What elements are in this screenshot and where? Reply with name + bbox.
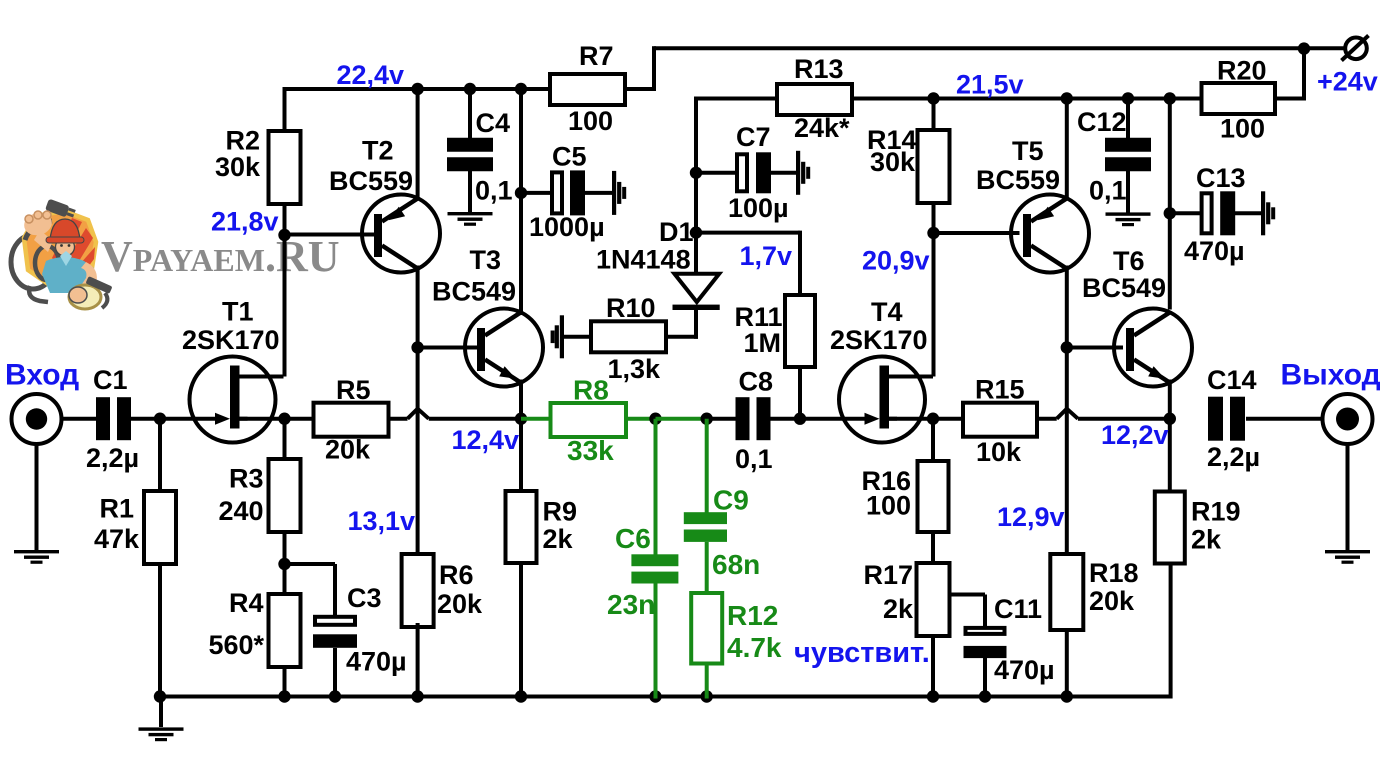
wire R4 bottom lead	[283, 667, 287, 699]
label +24v	[1317, 66, 1378, 96]
label R10	[606, 293, 656, 323]
svg-text:1,3k: 1,3k	[608, 354, 662, 384]
wire C7 lead left	[696, 171, 736, 175]
label C4 value 0,1	[475, 176, 513, 206]
capacitor C8	[736, 397, 771, 440]
label R4	[229, 588, 264, 618]
wire T1 drain vertical	[283, 233, 287, 377]
node R3/R4/C3 junction	[278, 558, 290, 570]
node T3 base junction	[411, 341, 423, 353]
wire T3 emitter vertical lower	[519, 380, 523, 421]
label R2 value 30k	[215, 152, 261, 182]
node ground rail / R1	[154, 690, 166, 702]
node C9 junction	[701, 413, 713, 425]
capacitor C13 (electrolytic 470µ)	[1202, 191, 1236, 235]
svg-text:BC549: BC549	[432, 277, 516, 307]
svg-text:C1: C1	[93, 365, 128, 395]
wire R19 bottom to ground rail corner	[1169, 564, 1173, 699]
label T5 type BC559	[976, 165, 1060, 195]
label C9 value 68n (green)	[712, 549, 760, 580]
svg-text:C7: C7	[736, 122, 771, 152]
logo text Vpayaem.RU	[101, 232, 340, 281]
svg-text:C6: C6	[615, 523, 651, 554]
svg-text:C14: C14	[1207, 365, 1257, 395]
label R3 value 240	[218, 496, 263, 526]
wire input jack ground stub	[35, 444, 39, 550]
transistor T3 (BC549 NPN)	[465, 309, 543, 387]
node T6 emitter / R19 junction	[1164, 413, 1176, 425]
label R17	[863, 560, 913, 590]
node D1 anode node	[690, 226, 702, 238]
svg-text:C3: C3	[347, 583, 382, 613]
label R20	[1217, 56, 1267, 86]
svg-text:1,7v: 1,7v	[740, 241, 793, 271]
node ground rail / R17	[927, 690, 939, 702]
node 21,5v rail / C12 junction	[1122, 92, 1134, 104]
svg-text:R19: R19	[1191, 497, 1241, 527]
ground R10 (sideways left)	[551, 315, 564, 358]
wire C4 bottom lead	[468, 168, 472, 213]
transistor T6 (BC549 NPN)	[1114, 309, 1192, 387]
svg-text:1000µ: 1000µ	[529, 212, 605, 242]
ground output jack	[1325, 550, 1370, 564]
capacitor C6 (green)	[631, 554, 678, 583]
svg-text:BC559: BC559	[976, 165, 1060, 195]
svg-text:T3: T3	[470, 245, 502, 275]
wire T2 collector vertical to T3 base node and R6	[416, 266, 420, 555]
label C14 value 2,2µ	[1207, 442, 1260, 472]
node ground rail / R4	[278, 690, 290, 702]
label R18 value 20k	[1089, 586, 1135, 616]
svg-text:12,9v: 12,9v	[997, 502, 1065, 532]
wire T4 drain vertical	[932, 231, 936, 377]
wire C4 top lead	[468, 87, 472, 141]
wire green R12 bottom lead	[705, 664, 709, 699]
node ground rail / R12	[701, 690, 713, 702]
svg-text:T2: T2	[362, 136, 394, 166]
resistor R15	[963, 403, 1037, 437]
resistor R8 (green)	[551, 403, 627, 437]
label R10 value 1,3k	[608, 354, 662, 384]
svg-text:R8: R8	[573, 375, 609, 406]
node 21,8v (R2/T1 drain/T2 base)	[278, 229, 290, 241]
wire T5 collector vertical to T6 base node and R18	[1065, 266, 1069, 555]
ground C7 (sideways)	[796, 151, 810, 195]
label R19	[1191, 497, 1241, 527]
label чувствит. (blue)	[794, 637, 930, 669]
label C4	[476, 108, 511, 138]
svg-text:30k: 30k	[215, 152, 261, 182]
label R16 value 100	[866, 491, 911, 521]
wire C3 tap	[283, 564, 336, 616]
wire to T4 gate	[800, 417, 865, 421]
wire R17 bottom lead	[931, 636, 935, 699]
wire C13 lead left	[1170, 211, 1201, 215]
wire main ground stub	[159, 697, 163, 728]
wire R1 bottom lead	[158, 564, 162, 699]
wire R18 bottom lead	[1065, 630, 1069, 699]
wire ground rail	[160, 695, 1171, 699]
label C12 value 0,1	[1089, 176, 1127, 206]
svg-text:Вход: Вход	[5, 358, 79, 391]
label R7	[579, 41, 614, 71]
label C12	[1077, 107, 1127, 137]
svg-text:+24v: +24v	[1317, 66, 1378, 96]
svg-text:R2: R2	[225, 126, 260, 156]
node C1/R1 junction	[154, 413, 166, 425]
label R13 value 24k*	[794, 113, 850, 143]
transistor T4 (2SK170 JFET)	[839, 357, 933, 443]
label C3	[347, 583, 382, 613]
label D1 type 1N4148	[596, 245, 691, 275]
ground main (below rail)	[139, 727, 184, 741]
label 22,4v voltage	[337, 60, 405, 90]
wire D1 node to R11 top	[694, 231, 800, 295]
connector output jack	[1323, 394, 1373, 444]
resistor R6	[402, 554, 434, 627]
resistor R20	[1202, 83, 1276, 114]
svg-text:R4: R4	[229, 588, 264, 618]
wire R5 right with crossover hop	[389, 409, 523, 419]
svg-text:2,2µ: 2,2µ	[1207, 442, 1260, 472]
wire R3 top lead	[283, 419, 287, 459]
capacitor C11 (electrolytic)	[964, 628, 1007, 658]
wire T6 emitter vertical lower	[1168, 380, 1172, 421]
wire C8 to R11 node	[770, 417, 800, 421]
label C6 value 23n (green)	[607, 589, 655, 620]
svg-text:C4: C4	[476, 108, 511, 138]
wire R10 left lead	[563, 335, 591, 339]
svg-text:10k: 10k	[976, 437, 1022, 467]
resistor R13	[777, 84, 852, 115]
label R4 value 560*	[208, 630, 264, 660]
wire 22,4v rail	[283, 87, 551, 91]
wire R13 left lead	[694, 97, 777, 101]
node ground rail / R18	[1061, 690, 1073, 702]
svg-text:24k*: 24k*	[794, 113, 850, 143]
label C11 value 470µ	[994, 655, 1055, 685]
svg-text:2SK170: 2SK170	[182, 325, 280, 355]
label C9 (green)	[713, 485, 749, 516]
svg-text:470µ: 470µ	[346, 647, 407, 677]
svg-text:100: 100	[866, 491, 911, 521]
label R2	[225, 126, 260, 156]
ground input jack	[14, 550, 59, 564]
svg-text:30k: 30k	[870, 147, 916, 177]
svg-text:20k: 20k	[437, 589, 483, 619]
label R11	[735, 302, 783, 332]
node ground rail / C6	[649, 690, 661, 702]
label R5 value 20k	[325, 435, 371, 465]
wire green C6 vertical upper	[654, 419, 658, 556]
label R12 (green)	[727, 600, 778, 631]
wire T5 emitter vertical	[1065, 97, 1069, 200]
logo Vpayaem.RU mascot	[11, 199, 113, 309]
node ground rail / C3	[329, 690, 341, 702]
svg-text:12,2v: 12,2v	[1101, 420, 1169, 450]
capacitor C7 (electrolytic 100µ)	[737, 152, 771, 193]
label R12 value 4.7k (green)	[727, 632, 782, 663]
node C5 junction	[515, 187, 527, 199]
svg-text:470µ: 470µ	[1184, 236, 1245, 266]
wire R20 to top rail jog	[1275, 46, 1304, 100]
ground C4	[448, 212, 493, 226]
resistor R2	[269, 131, 301, 204]
svg-text:R9: R9	[543, 497, 578, 527]
wire R1 top lead	[158, 419, 162, 491]
node T4 source / R16 / R15 junction	[927, 413, 939, 425]
node C13 junction	[1164, 207, 1176, 219]
wire R9 top lead	[519, 419, 523, 493]
label R18	[1089, 558, 1139, 588]
svg-text:2k: 2k	[543, 524, 574, 554]
wire T4 source to node	[889, 417, 933, 421]
label T6	[1113, 246, 1145, 276]
svg-text:2,2µ: 2,2µ	[86, 443, 139, 473]
resistor R1	[144, 491, 176, 564]
label 21,5v voltage	[956, 70, 1024, 100]
label 12,4v voltage	[452, 425, 520, 455]
wire R9 bottom lead	[519, 563, 523, 699]
svg-text:C11: C11	[994, 594, 1042, 624]
svg-text:T4: T4	[871, 297, 903, 327]
wire C3 bottom lead	[333, 648, 337, 699]
label 13,1v voltage	[348, 506, 416, 536]
svg-text:47k: 47k	[94, 524, 140, 554]
wire C12 bottom lead	[1126, 168, 1130, 213]
svg-text:0,1: 0,1	[735, 444, 773, 474]
svg-text:C5: C5	[552, 142, 587, 172]
wire node to R15	[933, 417, 963, 421]
resistor R9	[506, 491, 537, 563]
svg-text:100: 100	[1220, 114, 1265, 144]
wire green C9 to R12	[705, 542, 709, 594]
label 1,7v voltage	[740, 241, 793, 271]
label C7	[736, 122, 771, 152]
svg-text:T6: T6	[1113, 246, 1145, 276]
svg-text:560*: 560*	[208, 630, 264, 660]
svg-text:BC549: BC549	[1082, 273, 1166, 303]
node C7 junction	[690, 167, 702, 179]
wire 20,9v node to T5 base	[934, 231, 1020, 235]
resistor R12 (green)	[691, 593, 722, 664]
wire R2 top to rail	[283, 87, 287, 131]
svg-text:1M: 1M	[744, 328, 782, 358]
label R8 (green)	[573, 375, 609, 406]
label R5	[336, 375, 371, 405]
label R6	[439, 560, 474, 590]
label 12,2v voltage	[1101, 420, 1169, 450]
wire T2 emitter vertical	[416, 87, 420, 200]
svg-text:13,1v: 13,1v	[348, 506, 416, 536]
label R9	[543, 497, 578, 527]
capacitor C12	[1105, 138, 1151, 172]
node C8 / R11 junction	[794, 413, 806, 425]
wire C5 tap	[521, 191, 551, 195]
label T5	[1012, 136, 1044, 166]
label R3	[229, 464, 264, 494]
wire 21,8v node to T2 base	[285, 233, 375, 237]
wire T6 collector vertical	[1168, 97, 1172, 310]
wire C12 top lead	[1126, 97, 1130, 142]
resistor R7	[550, 74, 625, 105]
svg-text:1N4148: 1N4148	[596, 245, 691, 275]
svg-text:2k: 2k	[1191, 525, 1222, 555]
label R14	[867, 125, 917, 155]
svg-text:2SK170: 2SK170	[830, 325, 928, 355]
svg-text:470µ: 470µ	[994, 655, 1055, 685]
svg-text:D1: D1	[659, 217, 694, 247]
label Вход	[5, 358, 79, 391]
svg-text:0,1: 0,1	[475, 176, 513, 206]
node 22,4v rail / T2 emitter junction	[411, 83, 423, 95]
label R20 value 100	[1220, 114, 1265, 144]
svg-text:C13: C13	[1196, 163, 1246, 193]
wire R14 bottom to 20,9v node	[932, 203, 936, 235]
wire R16 top lead	[931, 419, 935, 461]
transistor T1 (2SK170 JFET)	[190, 357, 284, 443]
svg-text:C12: C12	[1077, 107, 1127, 137]
label C14	[1207, 365, 1257, 395]
label R14 value 30k	[870, 147, 916, 177]
svg-text:R3: R3	[229, 464, 264, 494]
node ground rail / C11	[979, 690, 991, 702]
wire C13 lead right to ground	[1233, 211, 1262, 215]
wire T3 collector vertical	[519, 87, 523, 315]
label C13 value 470µ	[1184, 236, 1245, 266]
label T2	[362, 136, 394, 166]
label 20,9v voltage	[862, 246, 930, 276]
node 22,4v rail / T3 collector junction	[515, 83, 527, 95]
label R8 value 33k (green)	[567, 435, 614, 466]
wire green C6 node to C9 node	[656, 417, 707, 421]
svg-text:C9: C9	[713, 485, 749, 516]
svg-text:240: 240	[218, 496, 263, 526]
svg-text:R10: R10	[606, 293, 656, 323]
label T3 type BC549	[432, 277, 516, 307]
svg-text:100µ: 100µ	[728, 193, 789, 223]
label R16	[861, 466, 911, 496]
wire T6 base lead	[1067, 346, 1123, 350]
label C8 value 0,1	[735, 444, 773, 474]
ground C5 (sideways)	[612, 171, 626, 215]
wire T1 source to node	[240, 417, 285, 421]
label C13	[1196, 163, 1246, 193]
wire 21,5v rail	[853, 97, 1202, 101]
ground C12	[1106, 212, 1151, 226]
svg-text:чувствит.: чувствит.	[794, 637, 930, 669]
wire R11 bottom lead	[798, 367, 802, 419]
svg-text:21,8v: 21,8v	[211, 207, 279, 237]
svg-text:20k: 20k	[325, 435, 371, 465]
svg-text:R6: R6	[439, 560, 474, 590]
wire input jack to C1	[61, 417, 98, 421]
wire R7 to top rail jog	[625, 46, 656, 91]
resistor R18	[1050, 554, 1083, 630]
wire green C6 vertical lower	[654, 584, 658, 699]
svg-text:R15: R15	[975, 375, 1025, 405]
diode D1 (1N4148)	[673, 274, 720, 339]
label C5	[552, 142, 587, 172]
node T1 source / R3 / R5 junction	[278, 413, 290, 425]
resistor R17	[917, 563, 950, 636]
svg-text:R17: R17	[863, 560, 913, 590]
svg-text:R13: R13	[794, 54, 844, 84]
label T1	[222, 297, 254, 327]
node 22,4v rail / C4 junction	[464, 83, 476, 95]
resistor R19	[1155, 492, 1185, 564]
node ground rail / R6	[411, 690, 423, 702]
label D1	[659, 217, 694, 247]
label C6 (green)	[615, 523, 651, 554]
label T6 type BC549	[1082, 273, 1166, 303]
label R9 value 2k	[543, 524, 574, 554]
wire R6 bottom lead	[416, 623, 420, 699]
node ground rail / R9	[515, 690, 527, 702]
label R15	[975, 375, 1025, 405]
capacitor C14	[1208, 397, 1245, 441]
label R19 value 2k	[1191, 525, 1222, 555]
wire R3-R4 link	[283, 533, 287, 594]
node 21,5v rail / T6 collector junction	[1164, 92, 1176, 104]
wire node to R5	[285, 417, 315, 421]
node T6 base junction	[1061, 341, 1073, 353]
label 12,9v voltage	[997, 502, 1065, 532]
svg-text:T1: T1	[222, 297, 254, 327]
node T3 emitter / R9 / R8 junction	[515, 413, 527, 425]
capacitor C5 (electrolytic 1000µ)	[552, 170, 585, 215]
wire R19 top lead	[1168, 419, 1172, 492]
label R7 value 100	[568, 106, 613, 136]
svg-text:100: 100	[568, 106, 613, 136]
svg-text:0,1: 0,1	[1089, 176, 1127, 206]
wire C5 to ground	[585, 191, 613, 195]
svg-text:20k: 20k	[1089, 586, 1135, 616]
wire C11 bottom lead	[983, 658, 987, 699]
resistor R10	[591, 321, 666, 352]
svg-text:Выход: Выход	[1281, 358, 1380, 391]
capacitor C4	[447, 138, 493, 172]
svg-text:C8: C8	[739, 367, 774, 397]
label C11	[994, 594, 1042, 624]
svg-text:R1: R1	[99, 494, 134, 524]
wire T3 base lead	[418, 346, 478, 350]
resistor R16	[918, 461, 949, 532]
wire C9 node to C8	[707, 417, 737, 421]
node 21,5v rail / T5 emitter junction	[1061, 92, 1073, 104]
wire D1 branch vertical (R13 to C7 to D1 node)	[694, 97, 698, 274]
wire D1 cathode to R10	[667, 335, 699, 339]
label R11 value 1M	[744, 328, 782, 358]
connector input jack	[12, 394, 62, 444]
resistor R4	[269, 594, 301, 667]
label T4 type 2SK170	[830, 325, 928, 355]
wire output jack ground stub	[1346, 444, 1350, 550]
label R17 value 2k	[883, 594, 914, 624]
transistor T5 (BC559 PNP)	[1011, 195, 1089, 273]
label C7 value 100µ	[728, 193, 789, 223]
svg-text:BC559: BC559	[329, 166, 413, 196]
svg-text:R12: R12	[727, 600, 778, 631]
wire green R8 left lead	[521, 417, 552, 421]
svg-text:4.7k: 4.7k	[727, 632, 782, 663]
node top rail / R20 junction	[1298, 42, 1310, 54]
wire R14 top lead	[932, 97, 936, 131]
wire R16-R17 link	[931, 532, 935, 563]
wire C7 lead right to ground	[769, 171, 797, 175]
svg-text:22,4v: 22,4v	[337, 60, 405, 90]
svg-text:R5: R5	[336, 375, 371, 405]
